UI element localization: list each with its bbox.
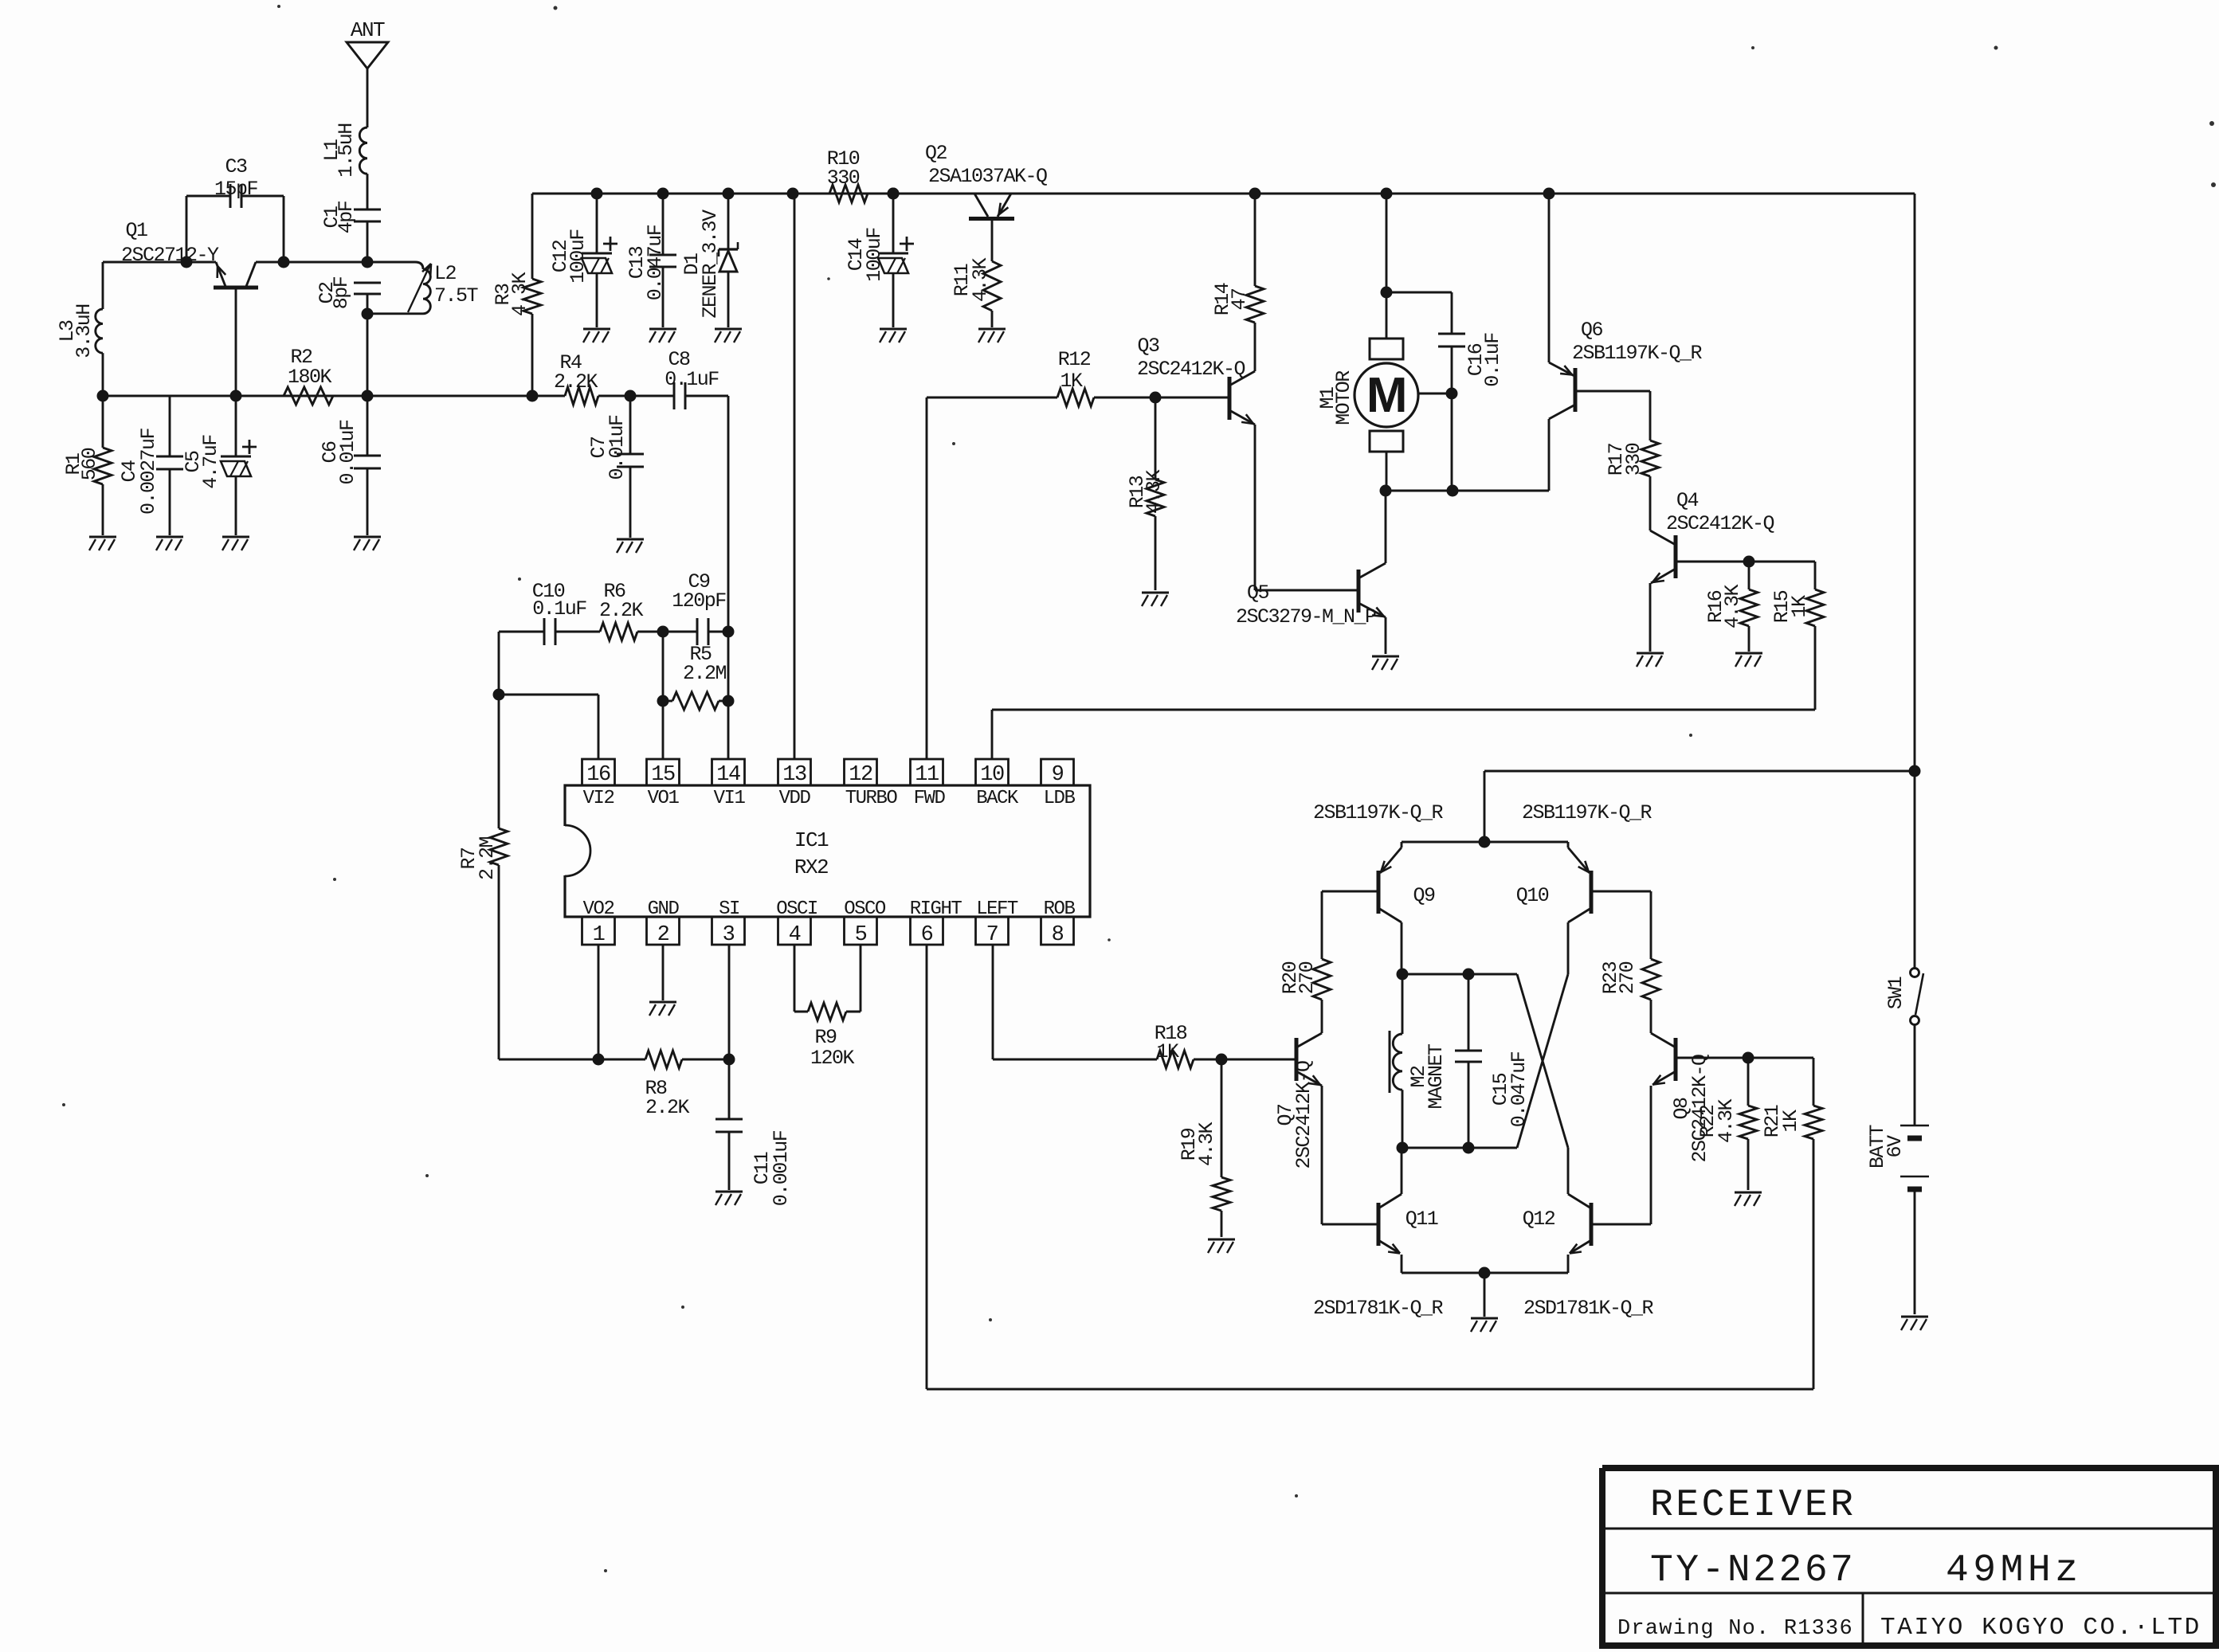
svg-text:100uF: 100uF bbox=[567, 229, 590, 284]
svg-text:2: 2 bbox=[657, 923, 669, 947]
svg-text:7.5T: 7.5T bbox=[434, 284, 479, 307]
svg-text:2SB1197K-Q_R: 2SB1197K-Q_R bbox=[1572, 342, 1703, 365]
svg-text:R12: R12 bbox=[1058, 348, 1091, 371]
svg-text:1K: 1K bbox=[1779, 1110, 1802, 1133]
svg-text:1K: 1K bbox=[1156, 1040, 1179, 1063]
svg-text:0.01uF: 0.01uF bbox=[336, 420, 359, 485]
svg-text:2SC2412K-Q: 2SC2412K-Q bbox=[1137, 358, 1245, 381]
svg-text:Q6: Q6 bbox=[1581, 319, 1603, 342]
svg-text:180K: 180K bbox=[288, 366, 332, 389]
svg-text:Q10: Q10 bbox=[1516, 884, 1549, 907]
svg-text:11: 11 bbox=[915, 763, 939, 787]
svg-text:LDB: LDB bbox=[1044, 788, 1076, 809]
svg-text:3.3uH: 3.3uH bbox=[73, 304, 96, 358]
svg-text:RECEIVER: RECEIVER bbox=[1650, 1484, 1856, 1527]
svg-text:12: 12 bbox=[849, 763, 872, 787]
svg-text:120K: 120K bbox=[810, 1047, 855, 1070]
svg-text:2.2K: 2.2K bbox=[645, 1096, 690, 1119]
svg-text:2.2K: 2.2K bbox=[554, 370, 598, 393]
svg-text:SI: SI bbox=[719, 898, 739, 920]
svg-text:MAGNET: MAGNET bbox=[1425, 1043, 1448, 1110]
svg-text:Q12: Q12 bbox=[1523, 1208, 1555, 1231]
svg-text:0.0027uF: 0.0027uF bbox=[137, 428, 160, 515]
svg-text:4.3K: 4.3K bbox=[1195, 1122, 1218, 1167]
svg-text:VO1: VO1 bbox=[648, 788, 680, 809]
svg-text:2.2K: 2.2K bbox=[599, 599, 644, 622]
svg-text:Q11: Q11 bbox=[1405, 1208, 1438, 1231]
svg-text:VO2: VO2 bbox=[583, 898, 614, 920]
svg-text:14: 14 bbox=[716, 763, 740, 787]
svg-text:2SC2712-Y: 2SC2712-Y bbox=[121, 244, 219, 267]
svg-text:0.047uF: 0.047uF bbox=[644, 225, 667, 300]
svg-text:2SD1781K-Q_R: 2SD1781K-Q_R bbox=[1523, 1297, 1654, 1320]
svg-text:RIGHT: RIGHT bbox=[910, 898, 962, 920]
svg-text:1: 1 bbox=[593, 923, 605, 947]
svg-text:R9: R9 bbox=[814, 1026, 837, 1049]
svg-text:2SD1781K-Q_R: 2SD1781K-Q_R bbox=[1313, 1297, 1444, 1320]
svg-text:Q5: Q5 bbox=[1247, 581, 1269, 605]
svg-text:4.3K: 4.3K bbox=[1715, 1099, 1738, 1144]
svg-text:VI2: VI2 bbox=[583, 788, 614, 809]
svg-text:100uF: 100uF bbox=[863, 228, 886, 282]
svg-text:LEFT: LEFT bbox=[976, 898, 1018, 920]
svg-text:5: 5 bbox=[855, 923, 867, 947]
svg-text:VI1: VI1 bbox=[714, 788, 746, 809]
svg-text:OSCI: OSCI bbox=[776, 898, 817, 920]
svg-text:Q3: Q3 bbox=[1137, 335, 1159, 358]
svg-text:8: 8 bbox=[1052, 923, 1064, 947]
svg-text:0.1uF: 0.1uF bbox=[665, 368, 719, 391]
svg-text:270: 270 bbox=[1616, 961, 1639, 994]
svg-text:RX2: RX2 bbox=[794, 855, 828, 879]
svg-text:270: 270 bbox=[1296, 961, 1319, 994]
svg-text:ROB: ROB bbox=[1044, 898, 1076, 920]
svg-text:9: 9 bbox=[1052, 763, 1064, 787]
svg-text:0.001uF: 0.001uF bbox=[770, 1130, 793, 1206]
svg-text:6: 6 bbox=[921, 923, 933, 947]
svg-text:Q9: Q9 bbox=[1413, 884, 1435, 907]
svg-text:0.1uF: 0.1uF bbox=[532, 597, 586, 620]
svg-text:4.3K: 4.3K bbox=[1721, 585, 1744, 629]
svg-text:2SA1037AK-Q: 2SA1037AK-Q bbox=[928, 165, 1047, 188]
svg-text:120pF: 120pF bbox=[672, 589, 726, 613]
svg-text:4.7uF: 4.7uF bbox=[199, 435, 222, 489]
svg-text:BACK: BACK bbox=[976, 788, 1019, 809]
svg-text:15pF: 15pF bbox=[214, 178, 258, 201]
svg-text:2SB1197K-Q_R: 2SB1197K-Q_R bbox=[1313, 801, 1444, 824]
svg-text:15: 15 bbox=[651, 763, 675, 787]
svg-text:GND: GND bbox=[648, 898, 680, 920]
svg-text:TY-N2267: TY-N2267 bbox=[1650, 1549, 1856, 1592]
svg-text:13: 13 bbox=[782, 763, 806, 787]
svg-text:1K: 1K bbox=[1788, 595, 1811, 618]
svg-text:16: 16 bbox=[586, 763, 610, 787]
svg-text:0.1uF: 0.1uF bbox=[1481, 333, 1504, 387]
svg-text:49MHz: 49MHz bbox=[1946, 1549, 2083, 1592]
svg-text:ZENER_3.3V: ZENER_3.3V bbox=[699, 209, 722, 319]
svg-text:Q4: Q4 bbox=[1676, 489, 1699, 512]
svg-text:C3: C3 bbox=[225, 155, 247, 178]
svg-text:10: 10 bbox=[980, 763, 1004, 787]
svg-text:VDD: VDD bbox=[779, 788, 811, 809]
svg-text:Q2: Q2 bbox=[925, 142, 947, 165]
svg-text:L2: L2 bbox=[434, 262, 457, 285]
svg-text:7: 7 bbox=[986, 923, 998, 947]
svg-text:M: M bbox=[1366, 368, 1406, 423]
svg-text:Drawing No. R1336: Drawing No. R1336 bbox=[1617, 1617, 1853, 1641]
svg-text:2SC2412K-Q: 2SC2412K-Q bbox=[1666, 512, 1774, 535]
svg-text:6V: 6V bbox=[1884, 1135, 1907, 1158]
svg-text:2SC2412K-Q: 2SC2412K-Q bbox=[1292, 1061, 1315, 1169]
svg-text:0.01uF: 0.01uF bbox=[606, 415, 629, 480]
svg-text:47: 47 bbox=[1228, 288, 1251, 311]
svg-text:560: 560 bbox=[78, 448, 101, 480]
svg-text:4.3K: 4.3K bbox=[1143, 470, 1166, 515]
svg-text:3: 3 bbox=[723, 923, 735, 947]
svg-text:8pF: 8pF bbox=[330, 276, 353, 309]
svg-text:330: 330 bbox=[1622, 443, 1645, 476]
svg-text:TAIYO KOGYO CO.·LTD: TAIYO KOGYO CO.·LTD bbox=[1880, 1614, 2201, 1642]
svg-text:ANT: ANT bbox=[351, 18, 385, 42]
svg-text:IC1: IC1 bbox=[794, 828, 829, 852]
svg-text:1K: 1K bbox=[1060, 370, 1083, 393]
svg-text:1.5uH: 1.5uH bbox=[335, 123, 358, 178]
svg-text:OSCO: OSCO bbox=[844, 898, 886, 920]
svg-text:2.2M: 2.2M bbox=[476, 837, 499, 881]
svg-text:Q1: Q1 bbox=[125, 219, 147, 242]
svg-text:4.3K: 4.3K bbox=[508, 272, 531, 317]
svg-text:TURBO: TURBO bbox=[845, 788, 898, 809]
svg-text:4: 4 bbox=[789, 923, 801, 947]
svg-text:330: 330 bbox=[827, 166, 860, 190]
svg-text:FWD: FWD bbox=[914, 788, 946, 809]
svg-text:2SB1197K-Q_R: 2SB1197K-Q_R bbox=[1522, 801, 1652, 824]
svg-text:2.2M: 2.2M bbox=[683, 662, 727, 685]
svg-text:4pF: 4pF bbox=[335, 201, 358, 233]
svg-text:4.3K: 4.3K bbox=[969, 258, 992, 303]
svg-text:SW1: SW1 bbox=[1884, 977, 1907, 1009]
svg-text:MOTOR: MOTOR bbox=[1332, 370, 1355, 425]
svg-text:2SC3279-M_N_P: 2SC3279-M_N_P bbox=[1236, 605, 1376, 628]
